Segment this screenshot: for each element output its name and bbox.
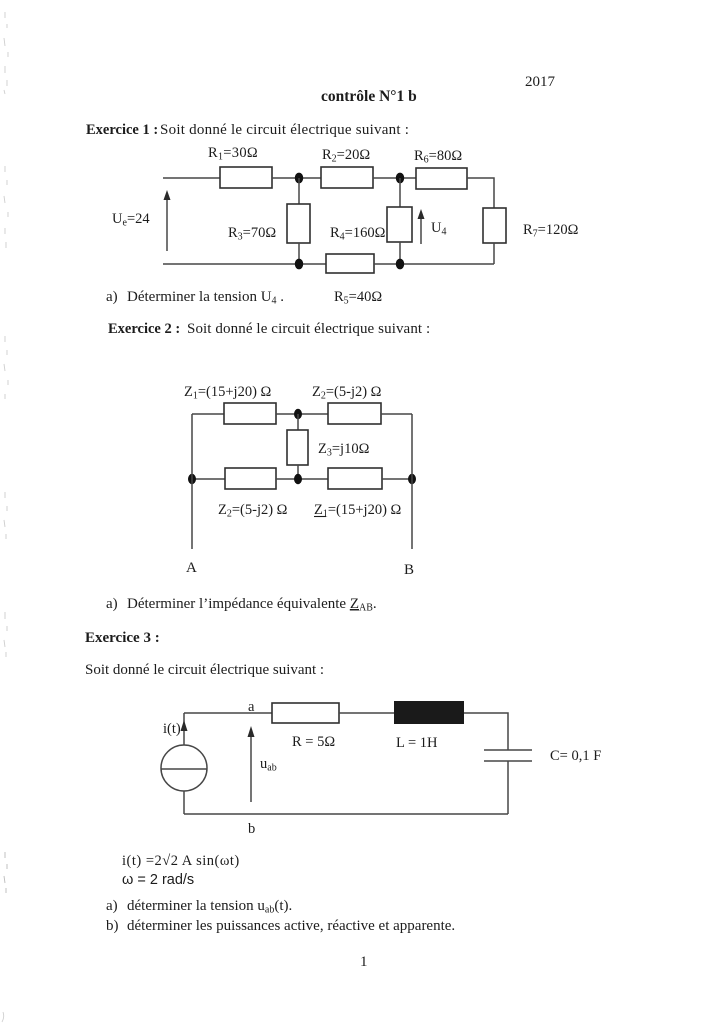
svg-text:contrôle N°1 b: contrôle N°1 b [321,88,417,105]
wire L to right corner [464,713,508,750]
node B1 [295,259,303,270]
wire R to L [339,712,394,714]
svg-text:a): a) [106,596,118,612]
wire R7 to bottom [493,243,495,264]
svg-text:Z3=j10Ω: Z3=j10Ω [318,441,370,459]
voltage arrow uab [250,733,252,802]
svg-text:R4=160Ω: R4=160Ω [330,225,386,243]
wire source top up [183,713,185,745]
resistor R5 [326,254,374,273]
scan artefacts left edge (decorative) [2,12,8,1022]
svg-text:2017: 2017 [525,74,556,90]
wire R3 to bottom node B1 [298,243,300,264]
svg-text:1: 1 [360,954,368,970]
resistor R [272,703,339,723]
svg-text:ω = 2 rad/s: ω = 2 rad/s [122,872,194,888]
svg-text:Déterminer la tension U4 .: Déterminer la tension U4 . [127,289,284,307]
svg-text:Déterminer l’impédance équival: Déterminer l’impédance équivalente ZAB. [127,596,377,614]
node A1 [295,173,303,184]
svg-text:R5=40Ω: R5=40Ω [334,289,382,307]
svg-text:Soit donné le circuit électriq: Soit donné le circuit électrique suivant… [160,122,409,138]
node B2 [396,259,404,270]
inductor L (filled) [394,701,464,724]
wire bottom right segment [374,263,494,265]
voltage arrow U4 [420,216,422,244]
svg-text:b: b [248,821,255,837]
wire bottom rail [184,813,508,815]
impedance Z2 middle box [225,468,276,489]
svg-text:Exercice 3 :: Exercice 3 : [85,630,160,646]
svg-text:R3=70Ω: R3=70Ω [228,225,276,243]
svg-text:Exercice 2 :: Exercice 2 : [108,321,180,337]
node middle centre [294,474,302,484]
svg-text:A: A [186,560,197,576]
wire middle rail left [192,478,225,480]
wire Z1m to right rail [382,478,412,480]
svg-text:R6=80Ω: R6=80Ω [414,148,462,166]
wire node to Z3 [297,414,299,430]
wire R6 to right corner [467,178,494,208]
node middle left [188,474,196,484]
svg-text:R7=120Ω: R7=120Ω [523,222,579,240]
source arrow Ue [166,196,168,251]
node top centre [294,409,302,419]
svg-text:Ue=24: Ue=24 [112,211,150,229]
svg-text:B: B [404,562,414,578]
svg-text:déterminer la tension uab(t).: déterminer la tension uab(t). [127,898,292,916]
svg-text:uab: uab [260,756,277,774]
wire R4 to bottom node B2 [399,242,401,264]
wire left rail down to A [191,414,193,549]
svg-text:R1=30Ω: R1=30Ω [208,145,258,163]
wire top rail left [184,712,272,714]
resistor R2 [321,167,373,188]
svg-text:i(t): i(t) [163,721,181,737]
impedance Z1 top box [224,403,276,424]
wire R1 to node A1 [272,177,321,179]
node middle right [408,474,416,484]
resistor R1 [220,167,272,188]
wire R2 to R6 [373,177,416,179]
wire node A1 down [298,178,300,204]
svg-text:R2=20Ω: R2=20Ω [322,147,370,165]
wire top rail [192,413,224,415]
wire Z3 to middle rail [297,465,299,479]
wire Z1 to Z2 top [276,413,328,415]
svg-text:a): a) [106,898,118,914]
wire source bottom down [183,791,185,814]
wire bottom left segment [163,263,326,265]
resistor R6 [416,168,467,189]
svg-text:Exercice 1 :: Exercice 1 : [86,122,158,138]
wire top left segment [163,177,220,179]
svg-text:i(t) =2√2 A sin(ωt): i(t) =2√2 A sin(ωt) [122,853,240,869]
resistor R4 [387,207,412,242]
wire Z2 to right rail [381,413,412,415]
svg-text:Z2=(5-j2) Ω: Z2=(5-j2) Ω [218,502,288,520]
impedance Z3 box [287,430,308,465]
svg-text:L = 1H: L = 1H [396,735,438,751]
svg-text:b): b) [106,918,119,934]
svg-text:C= 0,1 F: C= 0,1 F [550,748,601,764]
impedance Z1 middle box [328,468,382,489]
svg-text:Z1=(15+j20) Ω: Z1=(15+j20) Ω [314,502,402,520]
svg-text:Z1=(15+j20) Ω: Z1=(15+j20) Ω [184,384,272,402]
svg-text:U4: U4 [431,220,446,238]
svg-text:a): a) [106,289,118,305]
svg-text:déterminer les puissances acti: déterminer les puissances active, réacti… [127,918,455,934]
capacitor C plates [484,749,532,751]
impedance Z2 top box [328,403,381,424]
wire Z2m to Z1m [276,478,328,480]
svg-text:Z2=(5-j2) Ω: Z2=(5-j2) Ω [312,384,382,402]
node A2 [396,173,404,184]
current source [161,745,207,791]
wire right rail down to B [411,414,413,549]
resistor R7 [483,208,506,243]
svg-text:Soit donné le circuit électriq: Soit donné le circuit électrique suivant… [187,321,430,337]
svg-text:R = 5Ω: R = 5Ω [292,734,335,750]
svg-text:Soit donné le circuit électriq: Soit donné le circuit électrique suivant… [85,662,324,678]
resistor R3 [287,204,310,243]
wire C to bottom [507,761,509,814]
current arrow i(t) [181,720,188,731]
wire node A2 down [399,178,401,207]
